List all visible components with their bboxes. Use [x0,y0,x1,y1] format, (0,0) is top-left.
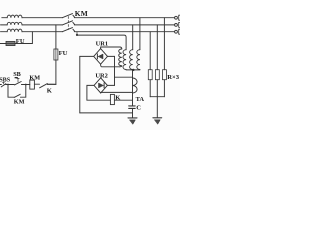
wire L2 left segment [1,24,8,26]
common node vertical rail [114,56,116,85]
resistor R 2 [155,70,159,80]
fuse FU (left, horizontal) [6,41,15,45]
svg-text:KM: KM [29,75,40,82]
wire UR2 left vertex loop to K coil [87,85,111,100]
inductor coil on line L3 [7,29,22,32]
svg-text:FU: FU [16,38,25,45]
wire L1 to contact [22,17,62,19]
node star point [132,69,134,71]
bottom rail to ground node [80,112,133,114]
left rail down [79,56,81,113]
relay coil K [110,94,114,104]
wire L2 right segment [74,24,174,26]
wire L1 right segment [74,17,174,19]
svg-text:UR1: UR1 [96,41,108,48]
UR1 feedback coil [119,49,122,66]
wire UR1 right vertex to common node rail [108,55,115,57]
node on L3 feeding transformer [76,32,78,35]
stop button SBS [1,84,6,87]
wire L1 left segment [2,17,7,19]
ground (left) [128,117,137,119]
cut label stub 3 [179,29,180,34]
wire UR2 bottom vertex to TA node [101,91,133,94]
wire K coil to TA node [114,99,132,101]
svg-text:KM: KM [14,98,25,105]
wire rail to UR2 right vertex [107,84,114,86]
diode inside UR2 [103,83,105,88]
control line from left edge [0,84,1,86]
wire L3 to resistor 1 [149,32,151,70]
svg-text:FU: FU [59,50,68,57]
node branch right [25,84,27,86]
svg-text:TA: TA [136,96,145,103]
capacitor C [129,106,136,109]
wire SB to KM coil [21,84,29,86]
wire UR1 left vertex to left rail [80,55,94,57]
wire bus down to ground [156,97,158,118]
cut label stub 2 [179,22,180,27]
svg-text:K: K [115,95,121,102]
transformer winding 2 [130,50,133,70]
wire L3 to contact [22,31,62,33]
label SB subscript [15,77,18,78]
svg-text:KM: KM [75,9,88,18]
wire L3 left segment [1,31,8,33]
relay contact K [40,84,48,88]
KM linkage dashed line [67,17,69,30]
transformer winding 3 [137,50,140,70]
contactor coil KM [30,80,35,89]
wire L1 to winding 3 [139,18,141,50]
wire L2 to winding 2 [132,25,134,50]
svg-text:SBS: SBS [0,76,11,83]
wire star point down to TA [132,70,134,78]
wire capacitor to ground [132,108,134,117]
contactor KM main contact 2 [62,21,72,25]
diode inside UR1 [96,54,98,59]
terminal circle line 3 [175,30,178,33]
wire UR1 top vertex to coil [101,47,122,49]
wire coil bottom to UR1 bottom vertex [101,64,120,67]
contactor KM main contact 1 [62,14,72,18]
wire TA down to capacitor [132,78,134,106]
svg-text:C: C [136,105,141,112]
wire L2 to contact [22,24,62,26]
coil bottom hook to wire [120,66,122,67]
start button SB blade [15,82,22,85]
wire from L2 down to fuse FU [55,25,57,49]
wire to winding 1 [77,35,126,50]
wire through left fuse [6,43,15,45]
inductor coil on line L1 [7,15,22,18]
SB plunger [17,78,19,82]
rectifier UR1 diamond [94,49,108,65]
inductor coil on line L2 [7,22,22,25]
winding star bus [126,69,140,71]
wire K contact to fuse drop [47,83,56,85]
wire L3 right segment [74,31,174,33]
wire to branch node [6,84,15,86]
resistor bottom bus [150,96,164,98]
resistor R 3 [163,70,167,80]
svg-text:K: K [47,87,53,94]
cut label stub 1 [179,15,180,20]
wire L2 to resistor 2 [156,25,158,70]
contactor KM main contact 3 [62,28,72,32]
svg-text:R×3: R×3 [167,74,180,81]
wire KM coil to K contact [34,83,39,85]
wire from L3 to left fuse [15,32,32,44]
current transformer TA winding [133,78,138,93]
ground (right) [153,117,162,119]
holding branch left drop [8,85,14,98]
fuse FU (middle, vertical) [54,49,58,60]
KM auxiliary contact [14,94,20,97]
transformer winding 1 [123,50,126,70]
terminal circle line 1 [175,16,178,19]
resistor R 1 [148,70,152,80]
terminal circle line 2 [175,24,178,27]
wire L1 to resistor 3 [163,18,165,70]
node branch left [7,84,9,86]
wire TA top to node rail [115,76,133,78]
wire fuse to control line corner [47,60,56,84]
rectifier UR2 diamond [94,78,107,93]
wires resistors to bus [150,80,164,97]
holding branch right [20,85,25,98]
svg-text:UR2: UR2 [95,73,107,80]
